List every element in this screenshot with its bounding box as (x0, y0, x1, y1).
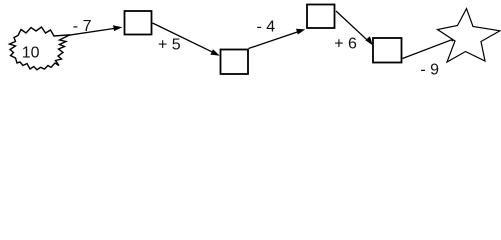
svg-text:- 9: - 9 (420, 62, 439, 79)
wire arrow A2 (box B1 to box B2) (153, 23, 220, 56)
wire arrow A4 (box B3 to box B4) (336, 11, 373, 45)
starburst input node (10, 27, 71, 70)
box B1 (125, 11, 152, 35)
wire arrow A1 (starburst to box B1) (58, 25, 122, 37)
box B2 (221, 50, 249, 75)
svg-text:- 4: - 4 (257, 19, 276, 36)
svg-text:+ 5: + 5 (158, 37, 181, 54)
svg-text:+ 6: + 6 (334, 35, 357, 52)
wire arrow A5 (box B4 to star) (403, 36, 460, 59)
svg-text:10: 10 (22, 45, 40, 62)
box B4 (373, 38, 402, 63)
wire arrow A3 (box B2 to box B3) (249, 29, 306, 49)
box B3 (307, 5, 335, 29)
svg-text:- 7: - 7 (73, 18, 92, 35)
star output node (438, 9, 501, 62)
